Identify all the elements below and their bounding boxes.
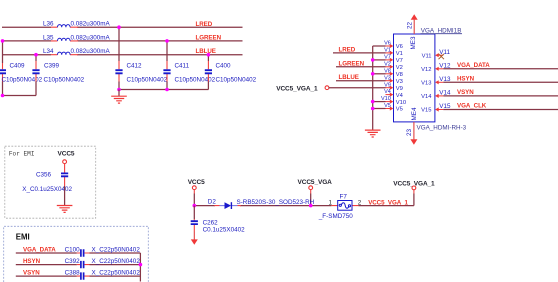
svg-text:0.082u300mA: 0.082u300mA bbox=[71, 48, 111, 55]
svg-text:D2: D2 bbox=[208, 199, 217, 206]
fuse F7 bbox=[318, 193, 362, 220]
svg-text:V8: V8 bbox=[396, 72, 403, 78]
capacitor C411 bbox=[163, 41, 215, 90]
wire VGA_CLK bbox=[443, 109, 558, 111]
bus stub to V7 bbox=[373, 59, 386, 61]
svg-text:C10p50N0402: C10p50N0402 bbox=[175, 76, 216, 83]
bus stub to V10 bbox=[373, 101, 386, 103]
capacitor C400 bbox=[205, 55, 257, 90]
pin 22 top stub bbox=[407, 14, 418, 34]
svg-text:1: 1 bbox=[328, 199, 332, 206]
svg-text:C388: C388 bbox=[65, 269, 81, 276]
svg-text:C356: C356 bbox=[36, 171, 52, 178]
wire VGA_DATA bbox=[443, 68, 558, 70]
svg-text:HSYN: HSYN bbox=[457, 75, 475, 82]
svg-text:0.082u300mA: 0.082u300mA bbox=[71, 34, 111, 41]
power VCC5_VGA_1 bbox=[393, 180, 435, 205]
bus stub to V8 bbox=[373, 73, 386, 75]
right pin names inside bbox=[421, 53, 432, 113]
capacitor C409 bbox=[0, 63, 43, 84]
no-connect X on V11 bbox=[439, 54, 445, 59]
junction C411 bottom bbox=[165, 88, 169, 92]
inductor L35 bbox=[43, 34, 111, 41]
svg-text:X_C22p50N0402: X_C22p50N0402 bbox=[92, 269, 141, 276]
pin 23 bottom stub bbox=[406, 122, 417, 145]
svg-text:V12: V12 bbox=[421, 67, 431, 73]
junction wire1/C412 bbox=[117, 25, 121, 29]
wire C356 to ground bbox=[64, 186, 66, 205]
inductor L34 bbox=[43, 48, 111, 55]
svg-text:HSYN: HSYN bbox=[23, 258, 41, 265]
svg-text:0.082u300mA: 0.082u300mA bbox=[71, 21, 111, 28]
capacitor C392 bbox=[65, 258, 141, 268]
wire C399 stem bbox=[35, 55, 37, 96]
svg-text:C399: C399 bbox=[44, 63, 60, 70]
wire VSYN (EMI row3) bbox=[16, 275, 141, 277]
svg-text:EMI: EMI bbox=[16, 233, 30, 242]
left pin names inside bbox=[396, 44, 406, 113]
svg-text:22: 22 bbox=[407, 21, 414, 29]
wire VSYN bbox=[443, 95, 558, 97]
ground under C412 bbox=[111, 90, 127, 104]
wire LBLUE row3 bbox=[2, 54, 243, 56]
svg-text:LGREEN: LGREEN bbox=[339, 60, 365, 67]
wire VSYN corner vertical bbox=[139, 253, 141, 282]
inductor L36 bbox=[43, 21, 111, 28]
svg-text:V5: V5 bbox=[396, 107, 403, 113]
junction C399 top bbox=[34, 53, 38, 57]
capacitor C356 bbox=[22, 163, 72, 193]
svg-text:V14: V14 bbox=[421, 94, 432, 100]
svg-text:S-RB520S-30_SOD523-RH: S-RB520S-30_SOD523-RH bbox=[237, 199, 315, 206]
diode D2 bbox=[208, 199, 315, 209]
svg-text:C0.1u25X0402: C0.1u25X0402 bbox=[203, 226, 246, 233]
svg-text:V15: V15 bbox=[421, 108, 431, 114]
svg-text:LRED: LRED bbox=[196, 21, 213, 28]
capacitor C388 bbox=[65, 269, 141, 279]
svg-text:V9: V9 bbox=[396, 86, 403, 92]
junction C412 bottom bbox=[117, 88, 121, 92]
junction wire3/C400 bbox=[207, 53, 211, 57]
svg-text:VCC5: VCC5 bbox=[58, 151, 75, 158]
main power wire bbox=[194, 205, 414, 207]
svg-text:X_C22p50N0402: X_C22p50N0402 bbox=[92, 246, 141, 253]
svg-text:23: 23 bbox=[406, 128, 413, 136]
connector ME3/ME4 VGA_HDMI-RH-3 body bbox=[394, 34, 435, 122]
capacitor C412 bbox=[115, 27, 167, 89]
wire LRED row1 bbox=[2, 26, 243, 28]
svg-text:V7: V7 bbox=[396, 58, 403, 64]
junction VCC5_VGA bbox=[309, 204, 313, 208]
wire HSYN bbox=[443, 81, 558, 83]
For EMI dashed box bbox=[5, 146, 96, 218]
svg-text:VGA_CLK: VGA_CLK bbox=[457, 103, 487, 110]
wire VGA_DATA (EMI row1) bbox=[16, 252, 141, 254]
svg-text:V1: V1 bbox=[396, 51, 403, 57]
junction wire2 left bbox=[1, 39, 5, 43]
svg-text:ME3: ME3 bbox=[410, 36, 417, 49]
svg-text:V2: V2 bbox=[396, 65, 403, 71]
svg-text:C262: C262 bbox=[203, 219, 219, 226]
junction VCC5 bbox=[193, 204, 197, 208]
svg-text:C412: C412 bbox=[127, 63, 143, 70]
svg-text:LGREEN: LGREEN bbox=[196, 34, 222, 41]
junction bus/V7 bbox=[371, 58, 375, 62]
svg-text:VCC5: VCC5 bbox=[188, 179, 205, 186]
bus stub to V6 bbox=[373, 45, 386, 47]
svg-text:VSYN: VSYN bbox=[457, 89, 474, 96]
capacitor C262 bbox=[191, 206, 245, 234]
svg-text:LRED: LRED bbox=[339, 46, 356, 53]
svg-text:L34: L34 bbox=[43, 48, 54, 55]
junction bus/V5 bbox=[371, 107, 375, 111]
svg-text:C100: C100 bbox=[65, 246, 81, 253]
svg-text:C10p50N0402: C10p50N0402 bbox=[216, 76, 257, 83]
svg-text:C400: C400 bbox=[216, 63, 232, 70]
gnd arrow under C262 bbox=[191, 232, 198, 245]
svg-text:VGA_DATA: VGA_DATA bbox=[23, 246, 56, 253]
capacitor C399 bbox=[32, 61, 84, 83]
ground bus left of connector bbox=[372, 46, 374, 130]
power VCC5 bbox=[188, 179, 205, 205]
svg-text:LBLUE: LBLUE bbox=[196, 48, 216, 55]
svg-text:C10p50N0402: C10p50N0402 bbox=[127, 76, 168, 83]
svg-text:V11: V11 bbox=[439, 49, 450, 56]
wire caps bottom bus bbox=[119, 89, 208, 91]
svg-text:2: 2 bbox=[358, 199, 362, 206]
svg-text:V13: V13 bbox=[421, 81, 431, 87]
bus stub to V5 bbox=[373, 108, 386, 110]
svg-text:C411: C411 bbox=[175, 63, 190, 70]
svg-text:V11: V11 bbox=[422, 53, 432, 59]
wire LGREEN row2 bbox=[2, 40, 243, 42]
svg-text:X_C22p50N0402: X_C22p50N0402 bbox=[92, 258, 141, 265]
ground under C356 bbox=[57, 206, 73, 213]
power VCC5_VGA bbox=[298, 179, 333, 205]
svg-text:V6: V6 bbox=[396, 44, 403, 50]
wire LRED to pin V1 bbox=[333, 52, 386, 54]
net label VGA_HDMI1B bbox=[421, 27, 463, 34]
svg-text:VCC5_VGA: VCC5_VGA bbox=[298, 179, 333, 186]
svg-text:L36: L36 bbox=[43, 21, 54, 28]
svg-text:_F-SMD750: _F-SMD750 bbox=[318, 213, 353, 220]
svg-text:LBLUE: LBLUE bbox=[339, 74, 359, 81]
capacitor C100 bbox=[65, 246, 141, 256]
wire left vertical to C409 bbox=[2, 41, 4, 63]
svg-text:F7: F7 bbox=[340, 193, 348, 200]
svg-text:ME4: ME4 bbox=[411, 107, 418, 120]
right pin stubs V11..V15 bbox=[435, 53, 443, 112]
junction wire2/C411 bbox=[165, 39, 169, 43]
right pin numbers outside bbox=[439, 49, 451, 110]
port VCC5_VGA_1 to pin V9 bbox=[276, 85, 385, 92]
wire C409 lower bbox=[3, 82, 37, 96]
junction EMI right bus bbox=[139, 263, 143, 267]
junction bus/V8 bbox=[371, 72, 375, 76]
svg-text:VSYN: VSYN bbox=[23, 269, 40, 276]
svg-text:V10: V10 bbox=[396, 100, 406, 106]
svg-text:VCC5_VGA_1: VCC5_VGA_1 bbox=[276, 85, 318, 92]
svg-text:For EMI: For EMI bbox=[9, 151, 35, 158]
svg-text:VGA_HDMI-RH-3: VGA_HDMI-RH-3 bbox=[417, 124, 467, 131]
svg-text:VCC5_VGA_1: VCC5_VGA_1 bbox=[368, 199, 408, 206]
junction bus/V10 bbox=[371, 100, 375, 104]
svg-text:V4: V4 bbox=[396, 93, 404, 99]
svg-text:C10p50N0402: C10p50N0402 bbox=[44, 76, 85, 83]
ground under bus bbox=[365, 130, 381, 137]
svg-text:VGA_DATA: VGA_DATA bbox=[457, 62, 490, 69]
junction bottom-left bbox=[1, 94, 5, 98]
power VCC5 (EMI box) bbox=[58, 151, 75, 164]
left pin numbers outside bbox=[381, 41, 391, 110]
wire LGREEN to pin V2 bbox=[336, 66, 386, 68]
svg-text:L35: L35 bbox=[43, 34, 54, 41]
svg-text:V4: V4 bbox=[384, 89, 391, 95]
EMI dashed box bbox=[4, 226, 149, 282]
wire LBLUE to pin V3 bbox=[336, 80, 386, 82]
svg-text:V3: V3 bbox=[396, 79, 403, 85]
left pin stubs V6,V1,V7,V2,V8,V3,V9,V4,V10,V5 bbox=[386, 44, 394, 111]
svg-text:C409: C409 bbox=[10, 63, 26, 70]
wire HSYN (EMI row2) bbox=[16, 264, 141, 266]
svg-text:C392: C392 bbox=[65, 258, 81, 265]
